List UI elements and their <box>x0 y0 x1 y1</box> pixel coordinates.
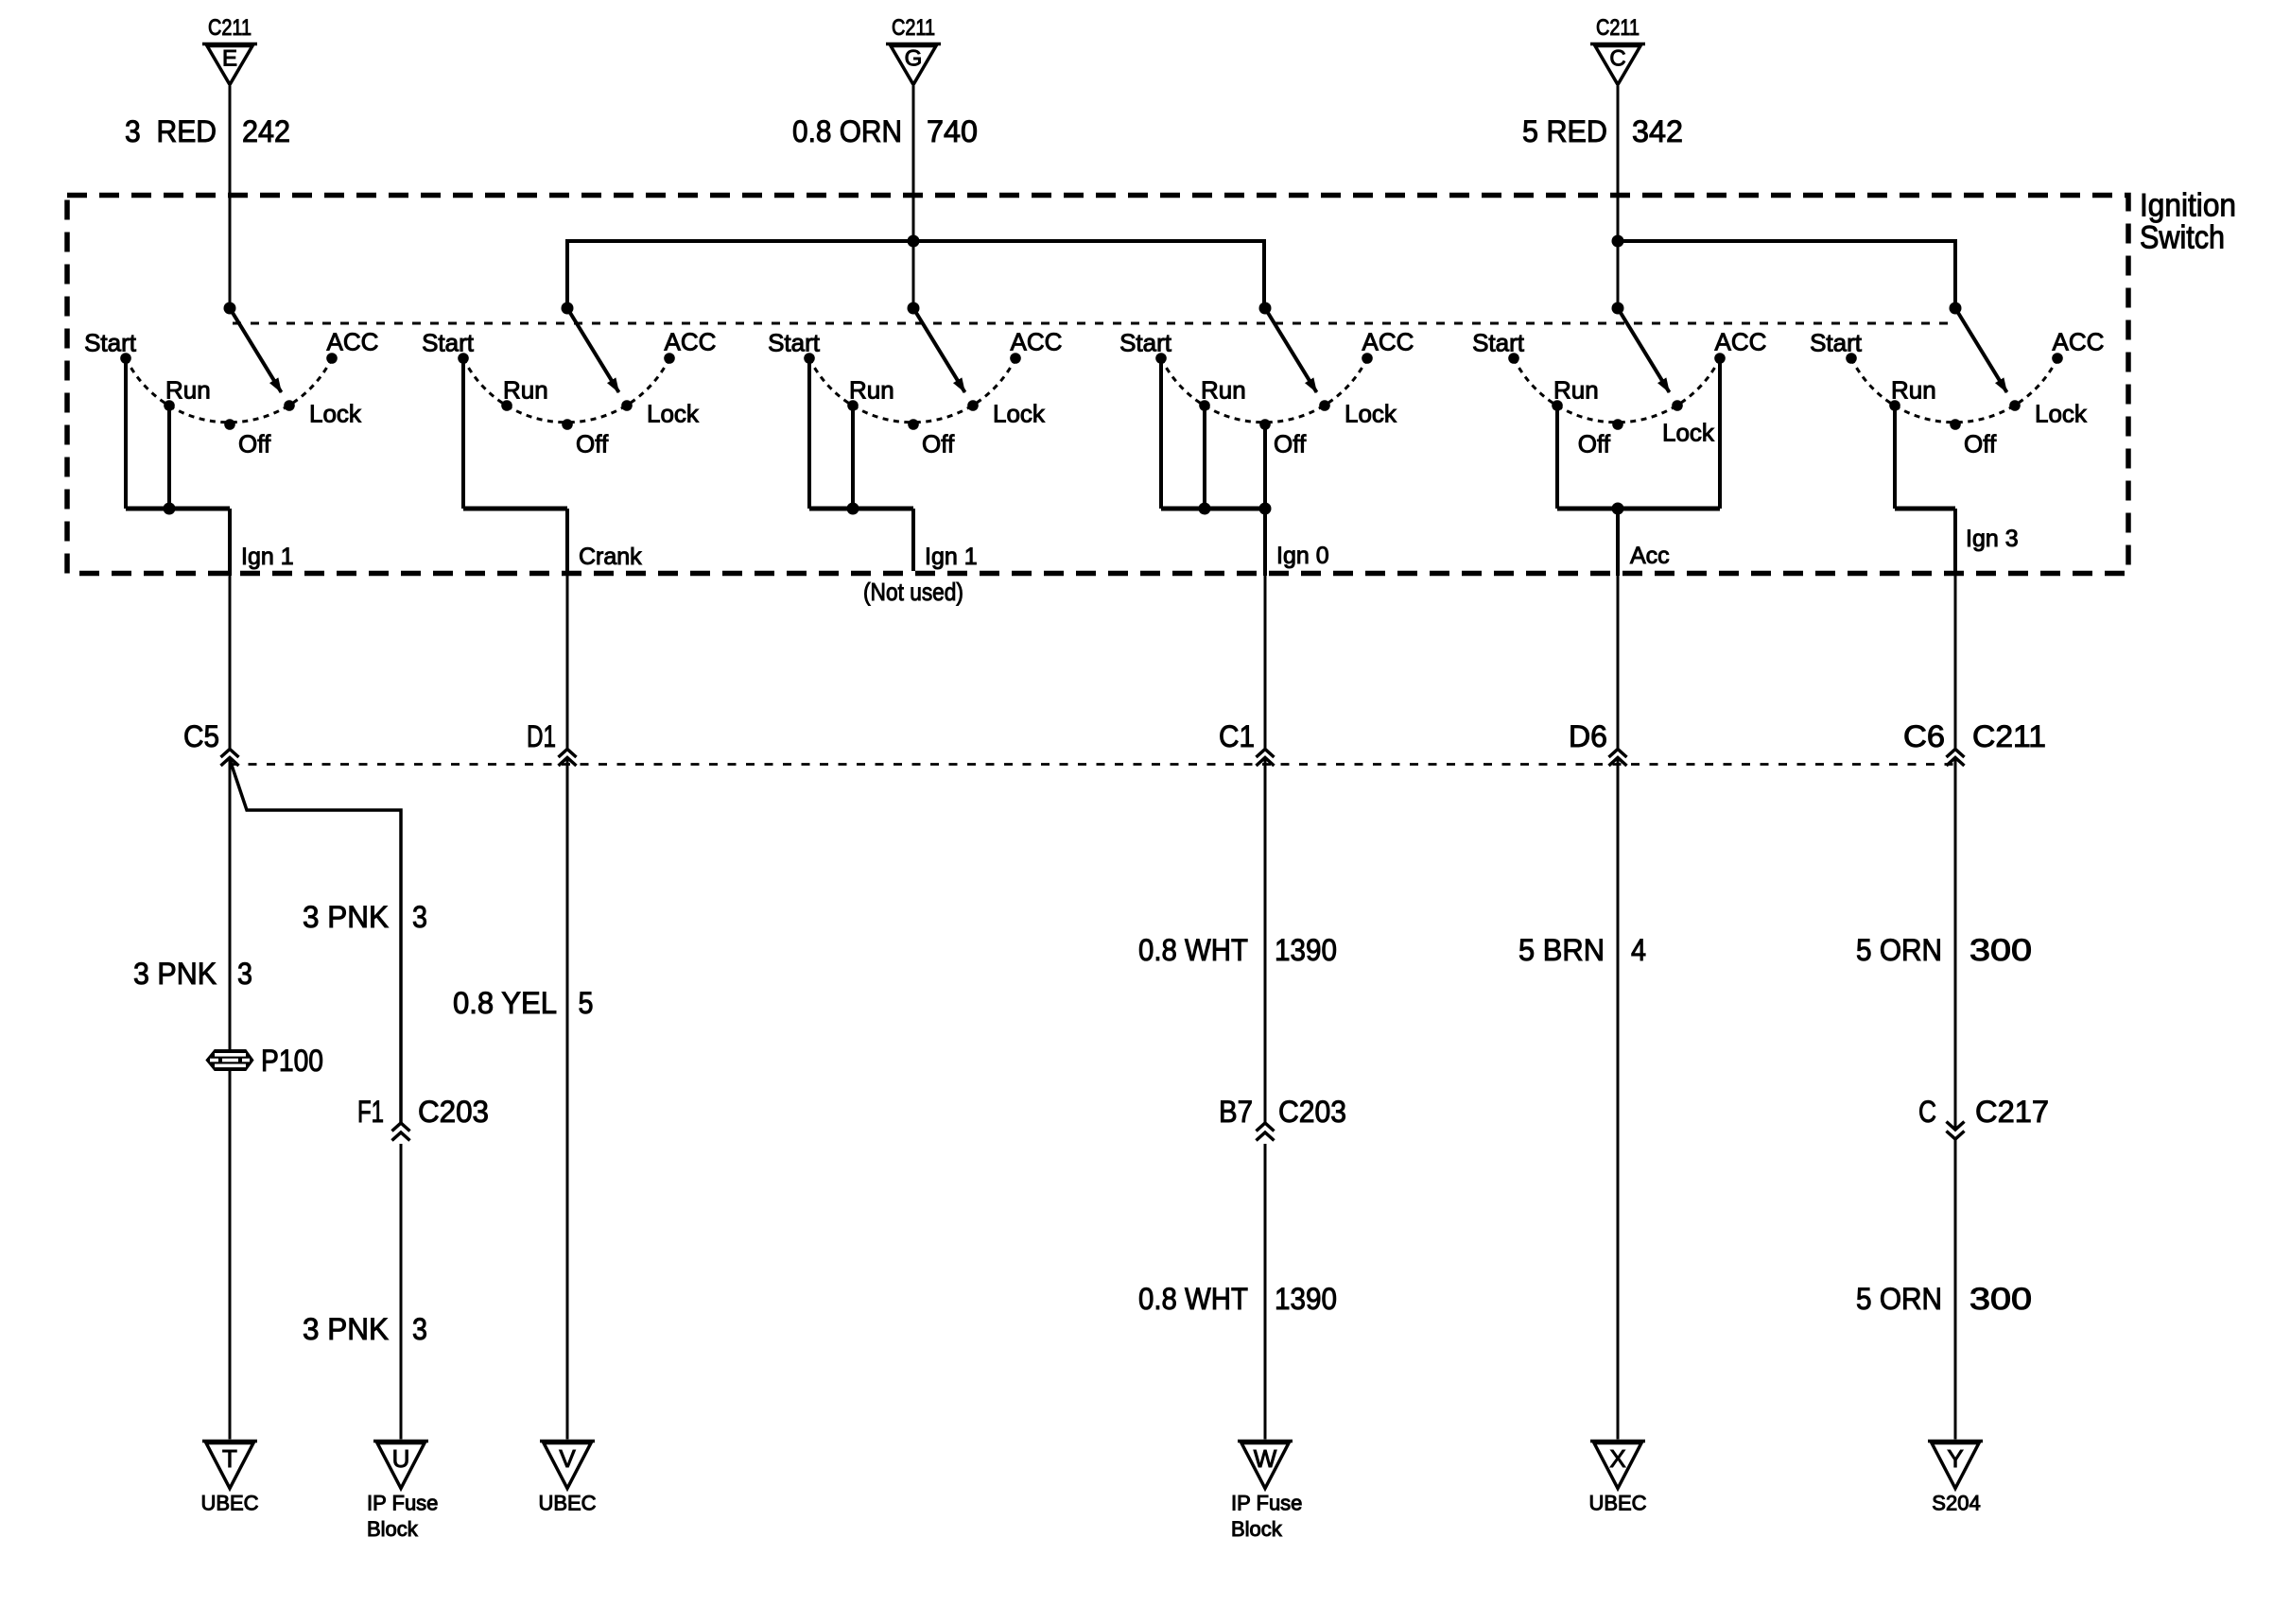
svg-text:V: V <box>559 1444 576 1473</box>
wire 3 PNK 3 from C203 to IP fuse block <box>400 1144 403 1440</box>
switch 5 Run contact <box>1552 400 1563 411</box>
switch 6 Off contact <box>1950 419 1961 430</box>
switch 4 Run junction <box>1199 503 1211 515</box>
switch 6 output stem Ign 3 <box>1953 509 1957 576</box>
switch 3 Run contact <box>847 400 859 411</box>
connector C211 cavity E triangle <box>202 43 257 46</box>
svg-text:UBEC: UBEC <box>200 1492 258 1515</box>
svg-text:IP Fuse: IP Fuse <box>1231 1492 1302 1515</box>
switch 1 collector wire <box>126 507 230 511</box>
svg-text:740: 740 <box>927 114 978 148</box>
switch 4 ACC contact <box>1362 353 1373 364</box>
svg-text:5 ORN: 5 ORN <box>1856 1282 1942 1316</box>
svg-text:4: 4 <box>1631 933 1646 967</box>
svg-text:Lock: Lock <box>647 400 700 428</box>
switch 1 Run contact <box>164 400 175 411</box>
svg-text:Run: Run <box>849 376 894 405</box>
svg-text:0.8 WHT: 0.8 WHT <box>1138 1282 1248 1316</box>
switch 4 output stem Ign 0 <box>1263 509 1267 576</box>
connector D1 chevrons <box>559 750 577 758</box>
svg-text:Lock: Lock <box>1345 400 1397 428</box>
switch 3 Start wire <box>807 358 811 509</box>
svg-text:342: 342 <box>1632 114 1683 148</box>
switch 5 Lock contact <box>1672 400 1683 411</box>
svg-text:Run: Run <box>1891 376 1936 405</box>
svg-text:Ignition: Ignition <box>2140 188 2236 224</box>
svg-text:5 BRN: 5 BRN <box>1518 933 1605 967</box>
switch 6 rotor arrow <box>1955 308 2007 392</box>
svg-text:Off: Off <box>576 430 609 458</box>
svg-text:Run: Run <box>1553 376 1599 405</box>
junction C feed <box>1612 235 1624 248</box>
wire 5 RED 342 from C to junction <box>1617 86 1620 308</box>
svg-text:(Not used): (Not used) <box>863 578 963 606</box>
svg-text:Ign 3: Ign 3 <box>1966 526 2019 552</box>
switch 2 rotor arrow <box>567 308 619 392</box>
switch 2 Start wire <box>461 358 465 509</box>
svg-text:C: C <box>1918 1095 1936 1129</box>
connector C211 cavity C triangle <box>1590 43 1645 46</box>
svg-text:IP Fuse: IP Fuse <box>367 1492 438 1515</box>
svg-text:Start: Start <box>84 329 137 357</box>
switch 4 Lock contact <box>1319 400 1330 411</box>
svg-text:3 PNK: 3 PNK <box>303 900 389 934</box>
switch 2 ACC contact <box>664 353 675 364</box>
svg-text:C211: C211 <box>1596 15 1640 41</box>
switch 4 Off wire <box>1263 424 1267 509</box>
wire 0.8 WHT 1390 upper <box>1264 759 1267 1124</box>
wire branch to IP fuse block <box>230 760 401 1124</box>
svg-text:Lock: Lock <box>1662 419 1715 447</box>
switch 4 contact arc <box>1161 358 1367 423</box>
svg-text:Lock: Lock <box>2035 400 2088 428</box>
svg-text:Run: Run <box>165 376 211 405</box>
svg-text:Ign 1: Ign 1 <box>241 544 294 570</box>
svg-text:D6: D6 <box>1569 719 1607 753</box>
svg-text:UBEC: UBEC <box>538 1492 596 1515</box>
svg-text:1390: 1390 <box>1275 933 1337 967</box>
ignition switch housing dashed box <box>67 196 2128 574</box>
svg-text:Start: Start <box>422 329 475 357</box>
svg-text:Switch: Switch <box>2140 220 2225 256</box>
switch 3 Lock contact <box>967 400 979 411</box>
svg-text:ACC: ACC <box>1011 328 1063 356</box>
svg-text:Off: Off <box>238 430 271 458</box>
svg-text:Start: Start <box>1472 329 1525 357</box>
connector IP fuse block triangle W <box>1238 1440 1293 1443</box>
wire internal feed from G to switches 2 and 4 <box>567 241 1264 308</box>
fusible link P100 <box>206 1050 253 1071</box>
switch 5 rotor arrow <box>1618 308 1670 392</box>
switch 3 output stem Ign 1 <box>911 509 915 571</box>
svg-text:Start: Start <box>1810 329 1863 357</box>
svg-text:3 RED: 3 RED <box>125 114 217 148</box>
switch 1 output stem Ign 1 <box>228 509 232 576</box>
switch 1 Run wire <box>167 406 171 509</box>
wire 3 RED 242 from E to switch 1 pivot <box>229 86 232 308</box>
svg-text:Run: Run <box>1201 376 1246 405</box>
connector C5 chevrons <box>221 750 239 758</box>
switch 1 pivot <box>224 302 236 315</box>
svg-text:Acc: Acc <box>1630 543 1670 569</box>
switch 3 rotor arrow <box>913 308 965 392</box>
svg-text:5 RED: 5 RED <box>1522 114 1607 148</box>
switch 1 Start wire <box>124 358 128 509</box>
svg-text:3 PNK: 3 PNK <box>133 957 217 991</box>
splice S204 triangle Y <box>1928 1440 1983 1443</box>
svg-text:Lock: Lock <box>309 400 362 428</box>
connector UBEC triangle T <box>202 1440 257 1443</box>
svg-text:ACC: ACC <box>2053 328 2105 356</box>
switch 3 contact arc <box>809 358 1015 423</box>
wire 0.8 WHT 1390 lower <box>1264 1144 1267 1440</box>
svg-text:ACC: ACC <box>327 328 379 356</box>
svg-text:P100: P100 <box>261 1044 323 1078</box>
switch 3 Run junction <box>847 503 859 515</box>
switch 6 Run wire <box>1893 406 1897 509</box>
svg-text:Off: Off <box>1274 430 1307 458</box>
switch 1 rotor arrow <box>230 308 282 392</box>
switch 6 ACC contact <box>2052 353 2063 364</box>
svg-text:W: W <box>1254 1444 1277 1473</box>
svg-text:D1: D1 <box>527 719 556 753</box>
svg-text:S204: S204 <box>1932 1492 1980 1515</box>
svg-text:0.8 YEL: 0.8 YEL <box>453 986 557 1020</box>
svg-text:C1: C1 <box>1219 719 1255 753</box>
switch 5 output stem Acc <box>1616 509 1620 576</box>
svg-text:Ign 0: Ign 0 <box>1276 543 1329 569</box>
svg-text:B7: B7 <box>1219 1095 1253 1129</box>
wire 0.8 YEL 5 to UBEC <box>566 759 569 1440</box>
wire 5 ORN 300 upper <box>1954 759 1957 1131</box>
wire 5 ORN 300 lower <box>1954 1140 1957 1440</box>
svg-text:E: E <box>222 46 237 72</box>
svg-text:X: X <box>1609 1444 1625 1473</box>
connector UBEC triangle V <box>540 1440 595 1443</box>
connector C1 chevrons <box>1257 750 1275 758</box>
switch 5 ACC wire <box>1718 358 1722 509</box>
svg-text:C211: C211 <box>892 15 935 41</box>
svg-text:5: 5 <box>579 986 594 1020</box>
switch 4 Off contact <box>1259 419 1271 430</box>
switch 1 Lock contact <box>284 400 295 411</box>
svg-text:ACC: ACC <box>1362 328 1414 356</box>
switch 3 Off contact <box>908 419 919 430</box>
connector C211 cavity G triangle <box>886 43 941 46</box>
switch 5 pivot <box>1612 302 1624 315</box>
svg-text:C211: C211 <box>208 15 252 41</box>
connector C6 chevrons <box>1947 750 1965 758</box>
switch 2 collector wire <box>463 507 567 511</box>
switch 5 contact arc <box>1514 358 1720 423</box>
switch 6 contact arc <box>1851 358 2057 423</box>
switch 1 Run junction <box>164 503 176 515</box>
svg-text:Block: Block <box>1231 1517 1283 1541</box>
connector C203 chevrons F1 <box>392 1123 410 1132</box>
switch 5 ACC contact <box>1714 353 1726 364</box>
switch 4 Off junction <box>1259 503 1272 515</box>
wire Crank from box to D1 <box>566 576 569 750</box>
switch 4 pivot <box>1259 302 1272 315</box>
svg-text:G: G <box>905 46 923 72</box>
svg-text:Off: Off <box>922 430 955 458</box>
svg-text:UBEC: UBEC <box>1588 1492 1646 1515</box>
wire Ign1 from box to C5 <box>229 573 232 750</box>
switch 6 collector wire <box>1895 507 1955 511</box>
svg-text:F1: F1 <box>357 1095 384 1129</box>
wire 0.8 ORN 740 from G to junction <box>912 86 915 308</box>
svg-text:ACC: ACC <box>665 328 717 356</box>
switch 4 rotor arrow <box>1265 308 1317 392</box>
connector C211 lower dashed line <box>230 763 1955 766</box>
svg-text:300: 300 <box>1969 933 2032 967</box>
connector UBEC triangle X <box>1590 1440 1645 1443</box>
switch 2 Start contact <box>458 353 469 364</box>
switch 6 pivot <box>1950 302 1962 315</box>
svg-text:C: C <box>1609 46 1625 72</box>
svg-text:3 PNK: 3 PNK <box>303 1312 389 1346</box>
switch 4 Start wire <box>1159 358 1163 509</box>
svg-text:Run: Run <box>503 376 548 405</box>
switch 6 Lock contact <box>2009 400 2021 411</box>
switch 1 ACC contact <box>326 353 338 364</box>
svg-text:0.8 WHT: 0.8 WHT <box>1138 933 1248 967</box>
svg-text:ACC: ACC <box>1715 328 1767 356</box>
svg-text:3: 3 <box>412 900 427 934</box>
connector C217 chevrons <box>1947 1122 1965 1131</box>
svg-text:U: U <box>392 1444 410 1473</box>
switch 6 Run contact <box>1889 400 1900 411</box>
switch 2 contact arc <box>463 358 669 423</box>
switch 1 Off contact <box>224 419 235 430</box>
svg-text:C203: C203 <box>418 1095 489 1129</box>
svg-text:Off: Off <box>1964 430 1997 458</box>
wire Ign3 from box to C6 <box>1954 576 1957 750</box>
svg-text:Block: Block <box>367 1517 419 1541</box>
svg-text:C211: C211 <box>1972 719 2046 753</box>
internal contact dashed rail <box>233 322 1953 325</box>
wire 3 PNK 3 down to fuse <box>229 759 232 1051</box>
switch 3 pivot <box>908 302 920 315</box>
switch 2 Run contact <box>501 400 512 411</box>
switch 4 Run contact <box>1199 400 1210 411</box>
switch 3 Run wire <box>851 406 855 509</box>
junction G feed <box>908 235 920 248</box>
switch 5 collector wire <box>1557 507 1720 511</box>
switch 3 collector wire <box>809 507 913 511</box>
connector IP fuse block triangle U <box>373 1440 428 1443</box>
switch 4 collector wire <box>1161 507 1265 511</box>
wire Acc from box to D6 <box>1617 576 1620 750</box>
switch 2 output stem Crank <box>565 509 569 576</box>
switch 5 Run wire <box>1555 406 1559 509</box>
switch 5 Off contact <box>1612 419 1623 430</box>
switch 5 stem junction <box>1612 503 1624 515</box>
switch 2 pivot <box>562 302 574 315</box>
switch 2 Lock contact <box>621 400 633 411</box>
svg-text:C203: C203 <box>1278 1095 1346 1129</box>
wire internal feed from C to switch 6 <box>1618 241 1955 308</box>
connector D6 chevrons <box>1609 750 1627 758</box>
svg-text:Start: Start <box>768 329 821 357</box>
svg-text:Y: Y <box>1947 1444 1963 1473</box>
svg-text:242: 242 <box>242 114 290 148</box>
svg-text:Start: Start <box>1119 329 1172 357</box>
svg-text:Crank: Crank <box>579 544 642 570</box>
switch 6 Start contact <box>1846 353 1857 364</box>
wire Ign0 from box to C1 <box>1264 576 1267 750</box>
switch 1 contact arc <box>126 358 332 423</box>
svg-text:T: T <box>222 1444 237 1473</box>
svg-text:3: 3 <box>237 957 252 991</box>
svg-text:C6: C6 <box>1903 719 1945 753</box>
switch 2 Off contact <box>562 419 573 430</box>
connector C203 chevrons B7 <box>1257 1123 1275 1132</box>
svg-text:0.8 ORN: 0.8 ORN <box>792 114 902 148</box>
switch 3 Start contact <box>804 353 815 364</box>
switch 5 Start contact <box>1508 353 1519 364</box>
wire 3 PNK 3 from fuse to UBEC <box>229 1071 232 1440</box>
svg-text:5 ORN: 5 ORN <box>1856 933 1942 967</box>
svg-text:Off: Off <box>1578 430 1611 458</box>
svg-text:300: 300 <box>1969 1282 2032 1316</box>
svg-text:1390: 1390 <box>1275 1282 1337 1316</box>
switch 4 Run wire <box>1203 406 1206 509</box>
svg-text:Ign 1: Ign 1 <box>925 544 978 570</box>
svg-text:C5: C5 <box>183 719 219 753</box>
svg-text:Lock: Lock <box>993 400 1046 428</box>
switch 1 Start contact <box>120 353 131 364</box>
switch 3 ACC contact <box>1010 353 1021 364</box>
svg-text:C217: C217 <box>1975 1095 2049 1129</box>
wire 5 BRN 4 to UBEC <box>1617 759 1620 1440</box>
switch 4 Start contact <box>1155 353 1167 364</box>
svg-text:3: 3 <box>412 1312 427 1346</box>
